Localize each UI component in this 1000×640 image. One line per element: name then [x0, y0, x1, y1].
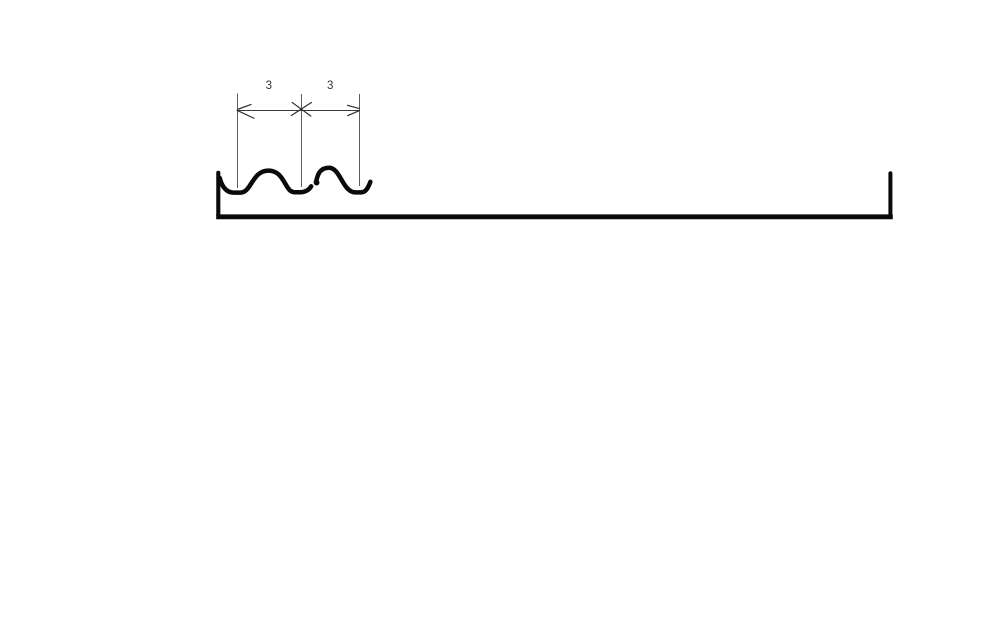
- corrugated wave stroke 2: [316, 168, 370, 193]
- extension line 3 (right): [359, 94, 361, 186]
- arrowhead right upper barb: [347, 105, 359, 108]
- svg-text:3: 3: [266, 80, 272, 92]
- corrugated wave stroke 1: [220, 171, 311, 193]
- extension line 2 (middle): [301, 94, 303, 187]
- arrowhead right lower barb: [347, 111, 359, 116]
- arrowhead middle X stroke a: [292, 102, 311, 116]
- profile left end stub: [216, 173, 220, 215]
- profile base line: [219, 214, 891, 219]
- arrowhead left lower barb: [238, 111, 255, 119]
- arrowhead left upper barb: [237, 104, 251, 109]
- profile right end stub: [888, 173, 892, 215]
- arrowhead middle X stroke b: [291, 102, 312, 116]
- extension line 1 (left): [237, 94, 239, 189]
- corrugated wave stroke 2 start blob: [314, 180, 320, 186]
- dimension line: [237, 110, 361, 112]
- svg-text:3: 3: [327, 80, 333, 92]
